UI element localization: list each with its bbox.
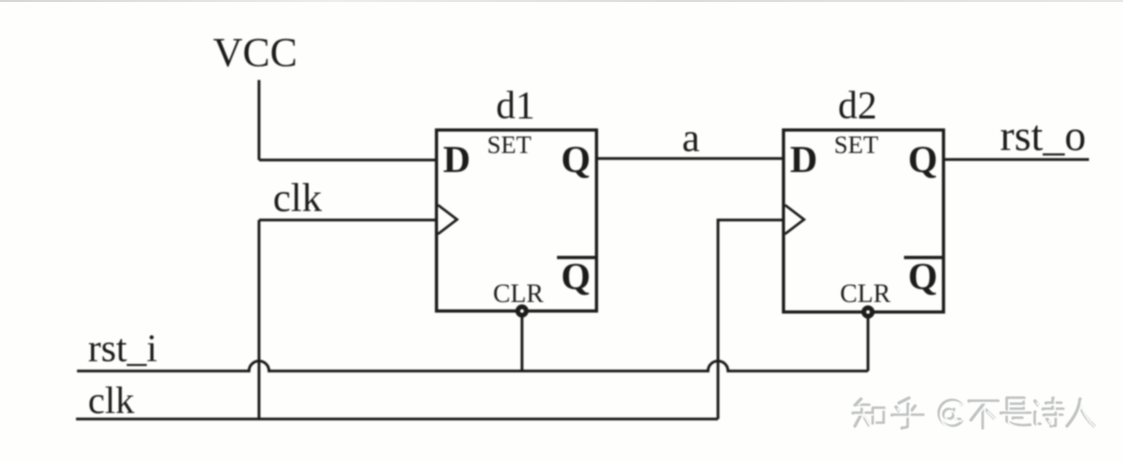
wire d1 CLR stub xyxy=(521,311,524,371)
top edge faint line xyxy=(0,0,1123,2)
d2 clock triangle xyxy=(785,205,804,234)
wire clk riser to d2 clock xyxy=(718,220,784,419)
wire d2 Q output xyxy=(943,158,1089,161)
d2 CLR junction dot xyxy=(864,308,872,316)
wire rst_i riser to d2 CLR xyxy=(867,313,870,371)
watermark glyph @ xyxy=(939,400,962,426)
watermark glyph 知 xyxy=(853,399,884,426)
watermark glyph 人 xyxy=(1067,399,1094,426)
flip-flop d2 box xyxy=(784,130,944,312)
d2 Q-bar overline xyxy=(904,256,943,259)
flip-flop d1 box xyxy=(437,130,597,311)
d1 clock triangle xyxy=(438,205,457,234)
wire VCC to D input of d1 xyxy=(259,159,437,162)
wire clk trunk (bottom) xyxy=(76,418,718,421)
watermark emboss highlight xyxy=(855,400,1096,430)
wire clk vertical drop xyxy=(258,220,261,419)
watermark "知乎 @不是诗人" drawn as strokes xyxy=(853,398,1094,428)
wire clk to d1 clock pin xyxy=(259,219,437,222)
wire rst_i horizontal with hops over clk lines xyxy=(77,361,868,371)
watermark glyph 不 xyxy=(969,401,998,428)
d1 CLR junction dot xyxy=(518,307,526,315)
wire d1 Q to d2 D (net a) xyxy=(596,157,784,160)
watermark glyph 是 xyxy=(1001,398,1030,426)
d1 Q-bar overline xyxy=(557,256,596,259)
watermark glyph 诗 xyxy=(1035,398,1063,426)
wire VCC vertical xyxy=(258,80,261,160)
watermark glyph 乎 xyxy=(892,398,923,428)
